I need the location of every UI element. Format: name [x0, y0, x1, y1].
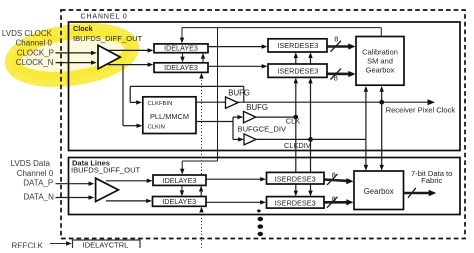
buffer IBUFDS_DIFF_OUT clock triangle: [98, 45, 120, 69]
wire PLL CLKOUT0 to BUFG: [196, 101, 225, 103]
wire delay control drop into clock IDELAYE3 1: [181, 28, 183, 39]
svg-text:BUFG: BUFG: [246, 103, 268, 112]
slash gearbox bus: [408, 188, 416, 198]
svg-text:IBUFDS_DIFF_OUT: IBUFDS_DIFF_OUT: [73, 34, 143, 43]
svg-text:IDELAYE3: IDELAYE3: [162, 197, 196, 206]
bus ISERDESE3 2 to calibration: [327, 73, 350, 76]
svg-text:ISERDESE3: ISERDESE3: [277, 66, 318, 75]
wire CLK between clock ISERDESE3s: [295, 57, 297, 64]
block IDELAYE3 clock 2: [154, 63, 208, 73]
junction dot on pixel clock line: [379, 100, 384, 105]
block IDELAYE3 data 1: [153, 175, 206, 185]
arrow REFCLK into data IDELAYE3 2: [199, 207, 203, 213]
wire pixel clock to calibration and gearbox: [381, 90, 383, 102]
svg-text:Channel 0: Channel 0: [16, 39, 53, 48]
slash data bus 2: [327, 197, 338, 208]
svg-text:CLKDIV: CLKDIV: [284, 141, 311, 150]
svg-text:CLK: CLK: [286, 117, 300, 126]
block IDELAYE3 data 2: [153, 197, 207, 207]
bus gearbox to fabric: [404, 192, 430, 195]
wire CLKDIV between clock ISERDESE3s: [310, 57, 312, 64]
svg-text:CLKFBIN: CLKFBIN: [148, 101, 173, 107]
svg-text:IBUFDS_DIFF_OUT: IBUFDS_DIFF_OUT: [71, 165, 141, 174]
svg-text:8: 8: [332, 195, 336, 204]
block PLL/MMCM: [143, 97, 196, 134]
svg-text:IDELAYE3: IDELAYE3: [163, 176, 197, 185]
wire DATA_P into buffer: [56, 183, 90, 185]
wire REFCLK into IDELAYCTRL: [50, 243, 67, 245]
wire delay control line from calibration: [182, 27, 381, 29]
svg-text:8: 8: [332, 170, 336, 179]
block ISERDESE3 clock 2: [268, 64, 327, 77]
svg-text:BUFG: BUFG: [228, 88, 250, 97]
svg-text:DATA_P: DATA_P: [23, 179, 53, 188]
block ISERDESE3 data 1: [267, 172, 325, 184]
ellipsis dots more channels: [257, 209, 261, 212]
svg-text:Clock: Clock: [73, 24, 93, 33]
wire data IDELAYE3 2 to 1 up arrow: [200, 191, 202, 197]
wire CLKDIV between data ISERDESE3s: [310, 184, 312, 192]
wire CLK up to ISERDESE3 2: [295, 82, 297, 118]
wire CLKDIV from BUFGCE_DIV: [256, 138, 311, 140]
svg-text:BUFGCE_DIV: BUFGCE_DIV: [238, 124, 287, 133]
block IDELAYCTRL: [73, 240, 141, 250]
wire IDELAYE3 2 to ISERDESE3 2: [208, 65, 262, 67]
wire CLKDIV to calibration and gearbox: [311, 138, 366, 140]
wire CLK from BUFG: [256, 116, 296, 118]
block ISERDESE3 clock 1: [268, 39, 327, 52]
svg-text:Calibration: Calibration: [362, 48, 398, 57]
wire data IDELAYE3 1 to ISERDESE3 1: [206, 178, 261, 180]
yellow highlighter oval around clock input: [3, 17, 142, 93]
wire data buffer O to IDELAYE3 1: [106, 180, 147, 182]
svg-text:8: 8: [334, 73, 338, 82]
svg-text:LVDS CLOCK: LVDS CLOCK: [2, 29, 53, 38]
buffer BUFG 1 triangle: [226, 97, 239, 109]
wire DATA_N into buffer: [56, 197, 90, 199]
svg-text:IDELAYCTRL: IDELAYCTRL: [83, 240, 129, 248]
svg-text:CLOCK_P: CLOCK_P: [17, 48, 54, 57]
wire PLL CLKOUT1 to BUFG/BUFGCE_DIV: [196, 121, 233, 123]
svg-text:Channel 0: Channel 0: [17, 169, 54, 178]
wire CLK down to data ISERDESE3 1: [295, 117, 297, 172]
Data Lines section box: [69, 158, 461, 215]
block Gearbox: [354, 171, 404, 210]
svg-text:Fabric: Fabric: [421, 176, 442, 185]
bus data ISERDESE3 1 to gearbox: [324, 180, 348, 181]
dashed border CHANNEL 0: [61, 10, 465, 239]
wire IDELAYE3 1 to ISERDESE3 1: [208, 46, 262, 48]
svg-text:CHANNEL 0: CHANNEL 0: [81, 13, 128, 20]
wire clock IDELAYE3 1 to 2 down arrow: [182, 53, 184, 58]
block ISERDESE3 data 2: [267, 197, 325, 209]
slash data bus 1: [327, 174, 338, 185]
wire CLOCK_P into buffer: [56, 52, 92, 54]
dotted REFCLK line from IDELAYCTRL: [201, 77, 203, 248]
block IDELAYE3 clock 1: [154, 44, 208, 53]
svg-text:IDELAYE3: IDELAYE3: [164, 44, 198, 53]
wire buffer O to IDELAYE3 1: [108, 49, 148, 51]
junction dot CLK: [293, 115, 298, 120]
wire data IDELAYE3 2 to ISERDESE3 2: [206, 201, 261, 203]
wire data buffer OB to IDELAYE3 2: [106, 200, 147, 202]
svg-text:REFCLK: REFCLK: [11, 242, 43, 248]
svg-text:LVDS Data: LVDS Data: [11, 159, 51, 168]
wire buffer OB to IDELAYE3 2: [108, 64, 148, 66]
arrow REFCLK into clock IDELAYE3 2: [199, 73, 203, 79]
wire CLOCK_N into buffer: [56, 62, 92, 64]
wire Receiver Pixel Clock: [237, 101, 429, 103]
svg-text:IDELAYE3: IDELAYE3: [164, 63, 198, 72]
svg-text:8: 8: [334, 34, 338, 43]
svg-text:Gearbox: Gearbox: [366, 66, 395, 75]
wire data IDELAYE3 1 to 2 down arrow: [181, 186, 183, 193]
buffer IBUFDS_DIFF_OUT data triangle: [96, 178, 119, 201]
svg-text:ISERDESE3: ISERDESE3: [275, 198, 316, 207]
wire CLKDIV up to ISERDESE3 2: [310, 82, 312, 140]
buffer BUFG 2 triangle: [244, 111, 256, 122]
bus data ISERDESE3 2 to gearbox: [324, 201, 348, 204]
svg-text:ISERDESE3: ISERDESE3: [277, 41, 318, 50]
wire branch to PLL CLKIN: [122, 65, 124, 126]
wire delay control into data IDELAYE3 1: [181, 161, 183, 170]
buffer BUFGCE_DIV triangle: [244, 134, 256, 145]
slash bus 2: [331, 69, 342, 80]
svg-text:CLKIN: CLKIN: [148, 125, 165, 131]
Clock section box: [69, 22, 461, 151]
wire CLKDIV down to data ISERDESE3 1: [310, 139, 312, 172]
svg-text:Gearbox: Gearbox: [364, 187, 394, 196]
svg-text:SM and: SM and: [367, 57, 393, 66]
svg-text:ISERDESE3: ISERDESE3: [275, 174, 316, 183]
wire CLK between data ISERDESE3s: [295, 184, 297, 192]
slash bus 1: [331, 41, 342, 52]
wire MMCM feedback loop: [243, 86, 245, 102]
svg-text:PLL/MMCM: PLL/MMCM: [150, 112, 189, 121]
wire delay control down to data section: [217, 28, 219, 161]
junction dot CLKDIV: [308, 137, 313, 142]
block Calibration SM and Gearbox: [356, 37, 404, 86]
svg-text:CLOCK_N: CLOCK_N: [16, 58, 54, 67]
bus ISERDESE3 1 to calibration: [327, 45, 350, 48]
wire clock IDELAYE3 2 to 1 up arrow: [202, 58, 204, 63]
svg-text:Receiver Pixel Clock: Receiver Pixel Clock: [386, 105, 456, 114]
svg-text:DATA_N: DATA_N: [24, 193, 55, 202]
